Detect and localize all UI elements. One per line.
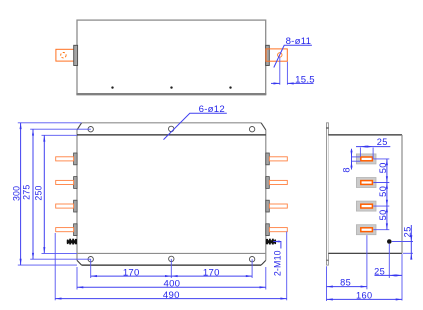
- dim 50 chain line: [386, 159, 388, 230]
- right lug row2: [269, 180, 287, 184]
- mounting hole bottom-middle: [169, 256, 174, 261]
- svg-text:170: 170: [203, 267, 220, 278]
- stud dot (side view): [387, 239, 392, 244]
- hole in left tab (dashed): [61, 53, 66, 58]
- dim 275 line: [32, 129, 34, 259]
- right tab (top view): [266, 49, 287, 61]
- svg-text:490: 490: [163, 290, 180, 301]
- dim 250 extension top: [42, 134, 78, 136]
- dim 50 arrows: [386, 159, 388, 165]
- leader line 6-o12: [164, 113, 227, 139]
- dim 50 extension row3: [373, 205, 389, 207]
- dim 275 extension top: [30, 128, 91, 130]
- svg-text:50: 50: [378, 162, 388, 173]
- side terminal lug row1: [361, 157, 373, 161]
- dim 85 line: [327, 286, 367, 288]
- svg-text:160: 160: [356, 290, 373, 300]
- dim 400 extension right: [265, 267, 267, 290]
- dim 490 arrows: [55, 298, 61, 300]
- dim 25 bottom arrows: [389, 274, 395, 276]
- dim 15.5 arrow left: [274, 82, 280, 84]
- right terminal block row1 (front view): [266, 153, 270, 165]
- right lug row1 (front view): [269, 157, 287, 161]
- dim 490 extension left: [54, 233, 56, 300]
- dim 50 extension row1: [373, 158, 389, 160]
- side terminal lug row4: [361, 228, 373, 232]
- hole in right tab: [278, 53, 282, 57]
- left tab (top view): [56, 49, 76, 61]
- left lug row3: [56, 204, 74, 208]
- dim 25 right extension a: [392, 241, 413, 243]
- side terminal lug row3: [361, 204, 373, 208]
- front view top fold line: [77, 134, 266, 136]
- right lug row4: [269, 228, 287, 232]
- front view bottom-right chamfer: [261, 260, 266, 265]
- dim 300 extension bottom: [18, 264, 77, 266]
- dim 50 extension row4: [373, 229, 389, 231]
- top view body outline: [77, 20, 266, 94]
- left terminal block row1 (front view): [74, 153, 78, 165]
- left terminal block row2: [74, 177, 78, 189]
- side view body top edge: [328, 134, 402, 136]
- svg-text:6-ø12: 6-ø12: [199, 104, 225, 115]
- front view flange top edge: [82, 122, 262, 124]
- svg-text:25: 25: [403, 226, 413, 237]
- svg-text:25: 25: [377, 137, 388, 147]
- svg-text:50: 50: [378, 209, 388, 220]
- dim 160 line: [327, 298, 403, 300]
- dim 250 line: [43, 135, 45, 253]
- dim 170a arrows: [91, 275, 97, 277]
- svg-text:25: 25: [374, 267, 385, 277]
- dim 25 top arrows: [360, 146, 366, 148]
- dim 15.5 arrow right: [287, 82, 293, 84]
- screw dot 1 (top view): [111, 86, 113, 88]
- dim 8 line: [351, 149, 353, 170]
- mounting hole bottom-right: [249, 257, 254, 262]
- dim 50 extension row2: [373, 182, 389, 184]
- svg-text:8: 8: [342, 167, 352, 173]
- dim 85 extension left: [326, 266, 328, 301]
- left lug row1 (front view): [56, 157, 74, 161]
- side view body bottom edge: [328, 252, 402, 254]
- right terminal block (top view): [266, 45, 270, 65]
- svg-text:400: 400: [164, 278, 181, 289]
- svg-text:8-ø11: 8-ø11: [286, 36, 312, 47]
- dim 25 bottom extension b: [401, 254, 403, 301]
- front view bottom edge: [82, 264, 262, 266]
- dim 400 extension left: [76, 267, 78, 290]
- dim 170 extension a: [90, 259, 92, 278]
- svg-text:170: 170: [123, 267, 140, 278]
- dim 250 arrows: [43, 135, 45, 141]
- right terminal block row4: [266, 224, 270, 236]
- dim 170a line: [91, 275, 172, 277]
- left terminal block (top view): [74, 45, 78, 65]
- dim 300 extension top: [18, 122, 82, 124]
- front view left edge: [76, 130, 78, 261]
- dim 490 extension right: [286, 232, 288, 301]
- side terminal lug row2: [361, 181, 373, 185]
- dim 160 arrows: [327, 298, 333, 300]
- left lug row4: [56, 228, 74, 232]
- svg-text:250: 250: [33, 185, 43, 200]
- right terminal block row2: [266, 177, 270, 189]
- ground stud left (front view): [67, 239, 77, 245]
- dim 15.5 extension line a: [279, 57, 281, 84]
- dim 170b arrows: [171, 275, 177, 277]
- dim 300 arrows: [20, 123, 22, 129]
- side terminal pad row4: [356, 225, 376, 235]
- front view bottom-left chamfer: [77, 260, 82, 265]
- dim 170b line: [171, 275, 252, 277]
- screw dot 2 (top view): [170, 86, 172, 88]
- dim 25 bottom line: [375, 274, 403, 276]
- right terminal block row3: [266, 200, 270, 212]
- side view flange plate: [327, 123, 329, 265]
- right lug row3: [269, 204, 287, 208]
- flange tick bottom (side view): [326, 259, 328, 261]
- svg-text:85: 85: [340, 277, 351, 287]
- dim 25 top line: [356, 146, 390, 148]
- side terminal pad row3: [356, 201, 376, 211]
- dim 170 extension c: [251, 259, 253, 278]
- mounting hole bottom-left: [88, 257, 93, 262]
- ground stud right (front view): [266, 239, 276, 245]
- mounting hole top-left: [88, 127, 93, 132]
- leader line 8-o11: [274, 45, 312, 67]
- dim 275 extension bottom: [30, 258, 91, 260]
- dim 25 top extension a: [359, 148, 361, 157]
- dim 25 right extension b: [403, 252, 413, 254]
- front view right edge: [265, 130, 267, 261]
- dim 275 arrows: [32, 129, 34, 135]
- dim 490 line: [55, 298, 287, 300]
- dim 170 extension b: [170, 259, 172, 278]
- dim 15.5 extension line b: [286, 62, 288, 85]
- dim 85 extension right: [366, 235, 368, 289]
- left terminal block row3: [74, 200, 78, 212]
- dim 400 arrows: [77, 286, 83, 288]
- svg-text:275: 275: [22, 185, 32, 200]
- front view bottom fold line: [77, 252, 266, 254]
- side view body fill: [328, 135, 402, 253]
- dim 25 top extension b: [372, 148, 374, 159]
- svg-text:15.5: 15.5: [295, 75, 315, 86]
- dim 15.5 line left: [271, 82, 280, 84]
- dim 8 arrows: [350, 151, 352, 157]
- dim 400 line: [77, 286, 266, 288]
- left terminal block row4: [74, 224, 78, 236]
- front view top-right chamfer: [261, 123, 266, 130]
- svg-text:2-M10: 2-M10: [273, 250, 283, 276]
- dim 250 extension bottom: [42, 252, 78, 254]
- dim 25 right arrows: [410, 235, 412, 241]
- flange tick top (side view): [326, 127, 328, 129]
- side terminal pad row2: [356, 178, 376, 188]
- leader 2-M10 line: [273, 242, 281, 249]
- front view top-left chamfer: [77, 123, 82, 130]
- left lug row2: [56, 180, 74, 184]
- top view flange bottom edge: [76, 93, 266, 95]
- side view body right edge: [401, 135, 403, 253]
- screw dot 3 (top view): [229, 86, 231, 88]
- svg-text:50: 50: [378, 186, 388, 197]
- dim 8 extension a: [352, 156, 361, 158]
- dim 25 bottom extension a: [388, 244, 390, 278]
- leader 2-M10 arrow: [273, 240, 279, 242]
- dim 300 line: [20, 123, 22, 265]
- mounting hole top-right: [249, 127, 254, 132]
- dim 15.5 line right: [287, 82, 313, 84]
- dim 8 extension b: [352, 160, 361, 162]
- mounting hole top-middle: [169, 126, 174, 131]
- dim 25 right line: [410, 225, 412, 260]
- dim 85 arrows: [327, 286, 333, 288]
- svg-text:300: 300: [11, 186, 21, 201]
- side terminal pad row1: [356, 154, 376, 164]
